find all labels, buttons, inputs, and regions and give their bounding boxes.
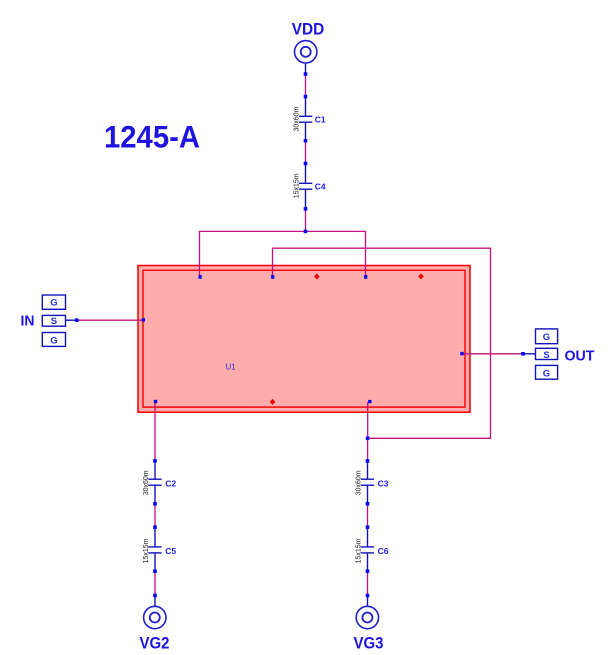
svg-text:C1: C1: [315, 114, 326, 124]
svg-text:1245-A: 1245-A: [104, 118, 200, 154]
svg-text:G: G: [543, 368, 550, 379]
svg-text:15x15m: 15x15m: [293, 173, 300, 198]
svg-text:VG2: VG2: [140, 634, 170, 652]
svg-text:OUT: OUT: [565, 347, 595, 364]
svg-text:30x60m: 30x60m: [143, 470, 150, 495]
svg-text:C4: C4: [315, 181, 326, 191]
svg-text:G: G: [543, 332, 550, 343]
svg-text:VDD: VDD: [292, 20, 325, 38]
svg-text:G: G: [50, 297, 57, 308]
svg-text:15x15m: 15x15m: [356, 538, 363, 563]
svg-text:30x60m: 30x60m: [293, 106, 300, 131]
svg-text:S: S: [543, 350, 549, 361]
svg-text:VG3: VG3: [354, 634, 384, 652]
svg-text:C3: C3: [378, 478, 389, 488]
svg-text:15x15m: 15x15m: [143, 538, 150, 563]
svg-text:G: G: [50, 335, 57, 346]
svg-text:C2: C2: [165, 478, 176, 488]
svg-text:U1: U1: [226, 363, 237, 372]
svg-text:30x60m: 30x60m: [356, 470, 363, 495]
svg-text:C5: C5: [165, 546, 176, 556]
svg-text:IN: IN: [21, 313, 35, 329]
svg-text:C6: C6: [378, 546, 389, 556]
svg-text:S: S: [51, 316, 57, 327]
